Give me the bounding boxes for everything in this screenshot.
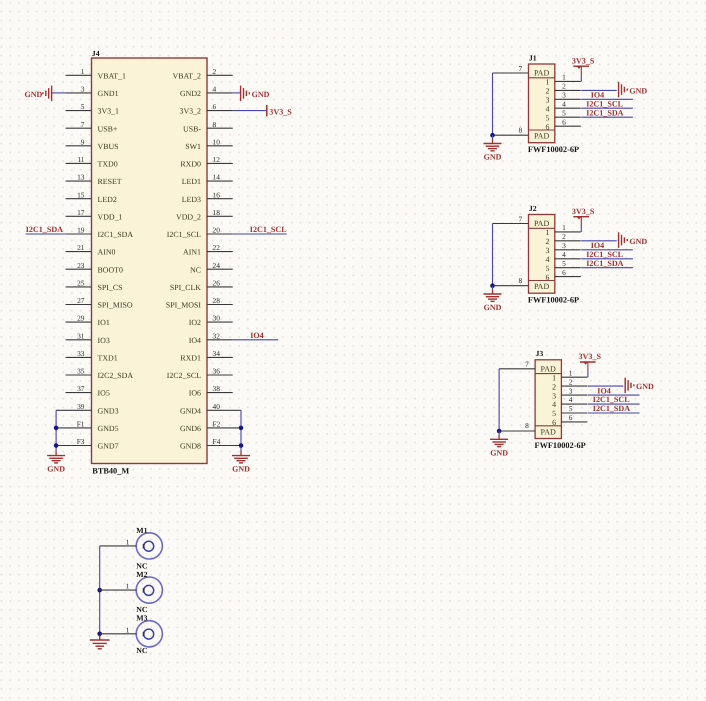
J4 pin 16 LED3 (right): [182, 190, 233, 204]
svg-text:PAD: PAD: [541, 427, 556, 436]
svg-text:TXD0: TXD0: [98, 160, 118, 169]
svg-text:1: 1: [546, 78, 550, 87]
svg-text:I2C1_SCL: I2C1_SCL: [593, 395, 630, 404]
J2 part name FWF10002-6P: [528, 296, 579, 305]
svg-text:IO4: IO4: [250, 331, 264, 340]
svg-text:1: 1: [126, 625, 130, 634]
J4 pin 28 SPI_MOSI (right): [166, 296, 233, 310]
net label I2C1_SCL at J3 pin 4: [593, 395, 630, 404]
svg-text:3V3_S: 3V3_S: [579, 352, 602, 361]
svg-text:6: 6: [552, 418, 556, 427]
svg-text:38: 38: [213, 384, 221, 393]
J4 pin 39 GND3 (left): [56, 402, 118, 416]
ground symbol below M3: [90, 636, 110, 649]
svg-text:3V3_2: 3V3_2: [180, 107, 202, 116]
power port 3V3_S above J1: [572, 56, 595, 69]
wire J2 pin 1 to 3V3_S: [580, 217, 582, 232]
svg-text:6: 6: [562, 117, 566, 126]
svg-text:7: 7: [518, 214, 522, 223]
svg-text:GND6: GND6: [180, 424, 201, 433]
power port 3V3_S above J2: [572, 207, 595, 220]
J2 pin 4: [546, 250, 581, 264]
svg-text:4: 4: [569, 395, 573, 404]
svg-text:4: 4: [546, 255, 550, 264]
J1 pin 5: [546, 108, 581, 122]
wire J2 pin 5 net I2C1_SDA: [581, 267, 633, 269]
wire J3 ground trunk: [498, 369, 500, 432]
svg-text:FWF10002-6P: FWF10002-6P: [528, 296, 579, 305]
svg-text:36: 36: [213, 367, 221, 376]
wire J2 pin 4 net I2C1_SCL: [581, 258, 633, 260]
svg-text:31: 31: [77, 331, 85, 340]
svg-text:5: 5: [552, 409, 556, 418]
svg-text:VBAT_1: VBAT_1: [98, 71, 127, 80]
wire J2 pin 3 net IO4: [581, 249, 633, 251]
J3 pin 5: [552, 404, 587, 418]
svg-text:3: 3: [546, 246, 550, 255]
J4 pin 30 IO2 (right): [189, 314, 233, 328]
svg-text:SPI_MOSI: SPI_MOSI: [166, 301, 201, 310]
svg-text:3V3_S: 3V3_S: [572, 207, 595, 216]
svg-text:SPI_CLK: SPI_CLK: [170, 283, 201, 292]
svg-text:22: 22: [213, 243, 221, 252]
svg-text:J2: J2: [529, 204, 537, 213]
J4 pin 35 I2C2_SDA (left): [66, 367, 134, 381]
svg-text:VDD_2: VDD_2: [176, 212, 201, 221]
svg-text:1: 1: [126, 582, 130, 591]
svg-text:SW1: SW1: [185, 142, 201, 151]
M3 value NC: [136, 646, 148, 655]
svg-text:5: 5: [546, 264, 550, 273]
svg-text:7: 7: [81, 120, 85, 129]
M1 designator: [136, 526, 147, 535]
svg-text:1: 1: [81, 67, 85, 76]
wire J4 pin 20 net I2C1_SCL: [233, 233, 287, 235]
svg-text:1: 1: [562, 223, 566, 232]
svg-text:4: 4: [213, 85, 217, 94]
J1 pin 8 PAD (left bottom): [493, 125, 529, 135]
J4 designator: [92, 49, 100, 58]
svg-text:LED2: LED2: [98, 195, 117, 204]
net label IO4 at J4 pin 32: [250, 331, 264, 340]
junction at F1 (left trunk): [54, 426, 59, 431]
svg-text:35: 35: [77, 367, 85, 376]
power port 3V3_S at J4 pin 6: [267, 105, 292, 117]
svg-text:I2C1_SDA: I2C1_SDA: [586, 259, 623, 268]
J3 part name FWF10002-6P: [535, 441, 586, 450]
svg-text:8: 8: [213, 120, 217, 129]
J1 pin 6: [546, 117, 581, 131]
svg-text:I2C1_SDA: I2C1_SDA: [586, 108, 623, 117]
J4 pin 8 USB- (right): [183, 120, 233, 134]
junction at F2 (right trunk): [239, 426, 244, 431]
svg-text:2: 2: [562, 232, 566, 241]
wire J4 pin 6 to 3V3_S: [233, 110, 267, 112]
J4 part name BTB40_M: [92, 467, 129, 476]
svg-text:PAD: PAD: [534, 219, 549, 228]
J4 pin 2 VBAT_2 (right): [173, 67, 233, 81]
mounting hole M2: [136, 577, 162, 603]
svg-text:1: 1: [552, 373, 556, 382]
svg-text:28: 28: [213, 296, 221, 305]
svg-text:2: 2: [569, 377, 573, 386]
svg-text:NC: NC: [136, 646, 148, 655]
connector J4 body BTB40_M: [92, 58, 208, 464]
svg-text:5: 5: [562, 108, 566, 117]
svg-text:20: 20: [213, 226, 221, 235]
J3 pin 3: [552, 386, 587, 400]
J1 pin 3: [546, 91, 581, 105]
J4 pin 1 VBAT_1 (left): [66, 67, 126, 81]
svg-text:I2C1_SCL: I2C1_SCL: [586, 250, 623, 259]
J2 pad name PAD (bottom): [534, 282, 549, 291]
wire J4 pins 40/F2/F4 ground trunk (right): [240, 410, 242, 451]
wire J1 ground trunk: [492, 73, 494, 136]
J4 pin F3 GND7 (left): [56, 437, 118, 451]
svg-text:IO4: IO4: [591, 91, 605, 100]
J1 designator: [529, 53, 537, 62]
J4 pin 14 LED1 (right): [182, 173, 233, 187]
J3 pin 7 PAD (left top): [499, 360, 535, 369]
J4 pin 29 IO1 (left): [66, 314, 110, 328]
wire J4 pins 39/F1/F3 ground trunk (left): [55, 410, 57, 451]
svg-text:2: 2: [552, 382, 556, 391]
wire J3 pin 2 to GND: [588, 385, 623, 387]
svg-text:J4: J4: [92, 49, 100, 58]
svg-text:17: 17: [77, 208, 85, 217]
svg-text:F3: F3: [77, 437, 85, 446]
J3 pin 8 PAD (left bottom): [499, 421, 535, 431]
svg-text:IO4: IO4: [591, 241, 605, 250]
wire J1 pin 2 to GND: [581, 89, 616, 91]
J4 pin F1 GND5 (left): [56, 420, 118, 434]
J4 pin 21 AIN0 (left): [66, 243, 116, 257]
svg-text:USB-: USB-: [183, 124, 201, 133]
svg-text:IO4: IO4: [189, 336, 201, 345]
svg-text:GND7: GND7: [98, 442, 119, 451]
svg-text:AIN1: AIN1: [183, 248, 201, 257]
J1 pad name PAD (top): [534, 69, 549, 78]
J4 pin 11 TXD0 (left): [66, 155, 118, 169]
wire to M1 pin 1: [100, 537, 137, 546]
junction at F3 (left trunk): [54, 443, 59, 448]
svg-text:3: 3: [569, 386, 573, 395]
svg-text:1: 1: [546, 228, 550, 237]
svg-text:IO6: IO6: [189, 389, 201, 398]
svg-text:26: 26: [213, 279, 221, 288]
mounting hole M3: [136, 621, 162, 647]
svg-text:7: 7: [525, 360, 529, 369]
J4 pin 26 SPI_CLK (right): [170, 279, 233, 293]
J3 pad name PAD (bottom): [541, 427, 556, 436]
wire to M2 pin 1: [100, 582, 137, 591]
svg-text:11: 11: [77, 155, 84, 164]
J4 pin 38 IO6 (right): [189, 384, 233, 398]
net label IO4 at J2 pin 3: [591, 241, 605, 250]
J1 part name FWF10002-6P: [528, 145, 579, 154]
svg-text:3V3_1: 3V3_1: [98, 107, 120, 116]
J4 pin 18 VDD_2 (right): [176, 208, 233, 222]
svg-text:PAD: PAD: [534, 282, 549, 291]
svg-text:6: 6: [546, 273, 550, 282]
wire mounting hole ground trunk: [99, 546, 101, 634]
net label I2C1_SDA at J4 pin 19: [26, 225, 63, 234]
M2 value NC: [136, 605, 148, 614]
svg-text:32: 32: [213, 331, 221, 340]
J4 pin 36 I2C2_SCL (right): [167, 367, 233, 381]
svg-text:3V3_S: 3V3_S: [572, 56, 595, 65]
J4 pin F2 GND6 (right): [180, 420, 241, 434]
svg-text:NC: NC: [190, 265, 201, 274]
svg-text:I2C1_SCL: I2C1_SCL: [167, 230, 201, 239]
wire J1 pin 1 to 3V3_S: [580, 66, 582, 81]
svg-text:13: 13: [77, 173, 85, 182]
svg-text:GND: GND: [490, 448, 508, 457]
J2 pin 7 PAD (left top): [493, 214, 529, 223]
wire J1 pin 4 net I2C1_SCL: [581, 107, 633, 109]
svg-text:LED1: LED1: [182, 177, 201, 186]
svg-text:GND: GND: [252, 90, 270, 99]
svg-text:I2C1_SDA: I2C1_SDA: [98, 230, 134, 239]
J2 pin 8 PAD (left bottom): [493, 276, 529, 286]
net label I2C1_SDA at J2 pin 5: [586, 259, 623, 268]
connector J3 body FWF10002-6P: [535, 360, 561, 439]
junction at J1 pin 8: [490, 133, 495, 138]
svg-text:6: 6: [569, 413, 573, 422]
M1 value NC: [136, 562, 148, 571]
power port 3V3_S above J3: [579, 352, 602, 365]
svg-text:3: 3: [562, 241, 566, 250]
svg-text:18: 18: [213, 208, 221, 217]
svg-text:2: 2: [546, 237, 550, 246]
svg-text:PAD: PAD: [534, 132, 549, 141]
wire J4 pin 3 to GND: [52, 92, 66, 94]
svg-text:5: 5: [569, 404, 573, 413]
J4 pin 40 GND4 (right): [180, 402, 241, 416]
svg-text:GND: GND: [47, 464, 65, 473]
svg-text:IO2: IO2: [189, 318, 201, 327]
svg-text:8: 8: [518, 125, 522, 134]
J4 pin 32 IO4 (right): [189, 331, 233, 345]
svg-text:GND: GND: [636, 382, 654, 391]
svg-text:33: 33: [77, 349, 85, 358]
J4 pin 6 3V3_2 (right): [180, 102, 233, 116]
svg-text:USB+: USB+: [98, 124, 118, 133]
svg-text:19: 19: [77, 226, 85, 235]
ground symbol GND at J1 pin 2: [619, 82, 648, 98]
svg-text:3V3_S: 3V3_S: [269, 108, 292, 117]
svg-text:2: 2: [562, 82, 566, 91]
junction at M2 wire: [97, 588, 102, 593]
svg-text:RESET: RESET: [98, 177, 122, 186]
svg-text:9: 9: [81, 137, 85, 146]
mounting hole M1: [136, 533, 162, 559]
J4 pin 33 TXD1 (left): [66, 349, 118, 363]
J4 pin 13 RESET (left): [66, 173, 122, 187]
J3 pin 6: [552, 413, 587, 427]
svg-text:SPI_CS: SPI_CS: [98, 283, 123, 292]
svg-text:30: 30: [213, 314, 221, 323]
svg-text:BOOT0: BOOT0: [98, 265, 123, 274]
svg-text:GND: GND: [25, 90, 43, 99]
svg-text:3: 3: [562, 91, 566, 100]
J4 pin 22 AIN1 (right): [183, 243, 233, 257]
ground symbol GND below J3: [490, 431, 508, 457]
svg-text:4: 4: [562, 100, 566, 109]
svg-text:6: 6: [546, 122, 550, 131]
ground symbol GND at J3 pin 2: [625, 378, 654, 394]
svg-text:SPI_MISO: SPI_MISO: [98, 301, 133, 310]
svg-text:VBAT_2: VBAT_2: [173, 71, 202, 80]
svg-text:IO5: IO5: [98, 389, 110, 398]
J2 pad name PAD (top): [534, 219, 549, 228]
J4 pin 37 IO5 (left): [66, 384, 110, 398]
J2 pin 1: [546, 223, 581, 237]
net label I2C1_SCL at J4 pin 20: [250, 225, 287, 234]
svg-text:IO4: IO4: [597, 386, 611, 395]
J3 pin 2: [552, 377, 587, 391]
svg-text:8: 8: [525, 421, 529, 430]
svg-text:I2C1_SDA: I2C1_SDA: [26, 225, 63, 234]
svg-text:J1: J1: [529, 53, 537, 62]
svg-text:VDD_1: VDD_1: [98, 212, 123, 221]
svg-text:M1: M1: [136, 526, 147, 535]
svg-text:VBUS: VBUS: [98, 142, 119, 151]
wire J2 pin 2 to GND: [581, 240, 616, 242]
svg-text:I2C2_SDA: I2C2_SDA: [98, 371, 134, 380]
svg-text:2: 2: [213, 67, 217, 76]
J4 pin 31 IO3 (left): [66, 331, 110, 345]
svg-text:AIN0: AIN0: [98, 248, 116, 257]
J4 pin 15 LED2 (left): [66, 190, 117, 204]
svg-text:GND2: GND2: [180, 89, 201, 98]
M3 designator: [136, 613, 147, 622]
ground symbol GND at J4 pin 4: [241, 86, 270, 102]
svg-text:GND: GND: [629, 237, 647, 246]
svg-text:2: 2: [546, 87, 550, 96]
junction at F4 (right trunk): [239, 443, 244, 448]
junction at J3 pin 8: [497, 429, 502, 434]
svg-text:M3: M3: [136, 613, 147, 622]
J3 pin 4: [552, 395, 587, 409]
svg-text:F2: F2: [213, 420, 221, 429]
svg-text:GND3: GND3: [98, 406, 119, 415]
svg-text:15: 15: [77, 190, 85, 199]
svg-text:27: 27: [77, 296, 85, 305]
svg-text:3: 3: [81, 85, 85, 94]
J4 pin 4 GND2 (right): [180, 85, 233, 99]
svg-text:4: 4: [546, 105, 550, 114]
net label IO4 at J3 pin 3: [597, 386, 611, 395]
junction at J2 pin 8: [490, 283, 495, 288]
net label IO4 at J1 pin 3: [591, 91, 605, 100]
J2 pin 5: [546, 259, 581, 273]
svg-text:RXD1: RXD1: [180, 354, 201, 363]
svg-text:23: 23: [77, 261, 85, 270]
connector J2 body FWF10002-6P: [529, 215, 555, 294]
wire J3 pin 1 to 3V3_S: [587, 362, 589, 377]
J2 designator: [529, 204, 537, 213]
svg-text:GND1: GND1: [98, 89, 119, 98]
J3 pad name PAD (top): [541, 365, 556, 374]
J1 pin 7 PAD (left top): [493, 64, 529, 73]
svg-text:40: 40: [213, 402, 221, 411]
svg-text:1: 1: [562, 73, 566, 82]
svg-text:4: 4: [552, 400, 556, 409]
svg-text:M2: M2: [136, 570, 147, 579]
svg-text:GND: GND: [629, 87, 647, 96]
ground symbol GND at J4 pin 3: [25, 86, 52, 102]
J4 pin 27 SPI_MISO (left): [66, 296, 133, 310]
svg-text:29: 29: [77, 314, 85, 323]
wire J1 pin 5 net I2C1_SDA: [581, 116, 633, 118]
net label I2C1_SCL at J1 pin 4: [586, 99, 623, 108]
ground symbol GND below J1: [484, 135, 502, 161]
wire J4 pin 19 net I2C1_SDA: [26, 233, 66, 235]
svg-text:GND: GND: [484, 153, 502, 162]
J4 pin 24 NC (right): [190, 261, 233, 275]
svg-text:14: 14: [213, 173, 221, 182]
svg-text:37: 37: [77, 384, 85, 393]
J4 pin 10 SW1 (right): [185, 137, 232, 151]
svg-text:FWF10002-6P: FWF10002-6P: [528, 145, 579, 154]
J4 pin 19 I2C1_SDA (left): [66, 226, 134, 240]
J1 pin 2: [546, 82, 581, 96]
svg-text:6: 6: [213, 102, 217, 111]
ground symbol GND at J2 pin 2: [619, 232, 648, 248]
wire J3 pin 4 net I2C1_SCL: [588, 403, 640, 405]
svg-text:BTB40_M: BTB40_M: [92, 467, 129, 476]
junction at M3 wire: [97, 632, 102, 637]
svg-text:21: 21: [77, 243, 85, 252]
svg-text:10: 10: [213, 137, 221, 146]
ground symbol GND bottom-right of J4: [232, 451, 250, 473]
wire J4 pin 4 to GND: [233, 92, 241, 94]
svg-text:39: 39: [77, 402, 85, 411]
svg-text:25: 25: [77, 279, 85, 288]
svg-text:5: 5: [562, 259, 566, 268]
svg-text:5: 5: [546, 113, 550, 122]
svg-text:GND4: GND4: [180, 406, 201, 415]
J4 pin 5 3V3_1 (left): [66, 102, 119, 116]
J1 pin 4: [546, 100, 581, 114]
J4 pin 7 USB+ (left): [66, 120, 118, 134]
svg-text:TXD1: TXD1: [98, 354, 118, 363]
svg-text:5: 5: [81, 102, 85, 111]
J4 pin 20 I2C1_SCL (right): [167, 226, 233, 240]
J4 pin 3 GND1 (left): [66, 85, 119, 99]
J3 pin 1: [552, 368, 587, 382]
wire J3 pin 5 net I2C1_SDA: [588, 412, 640, 414]
svg-text:7: 7: [518, 64, 522, 73]
svg-text:6: 6: [562, 268, 566, 277]
svg-text:1: 1: [126, 537, 130, 546]
svg-text:FWF10002-6P: FWF10002-6P: [535, 441, 586, 450]
svg-text:IO1: IO1: [98, 318, 110, 327]
wire J3 pin 3 net IO4: [588, 394, 640, 396]
svg-text:3: 3: [546, 96, 550, 105]
wire J1 pin 3 net IO4: [581, 98, 633, 100]
net label I2C1_SCL at J2 pin 4: [586, 250, 623, 259]
svg-text:I2C1_SDA: I2C1_SDA: [593, 404, 630, 413]
svg-text:34: 34: [213, 349, 221, 358]
J4 pin 34 RXD1 (right): [180, 349, 232, 363]
svg-text:IO3: IO3: [98, 336, 110, 345]
svg-text:I2C2_SCL: I2C2_SCL: [167, 371, 201, 380]
wire J2 ground trunk: [492, 224, 494, 287]
svg-text:J3: J3: [536, 349, 544, 358]
wire to M3 pin 1: [100, 625, 137, 634]
